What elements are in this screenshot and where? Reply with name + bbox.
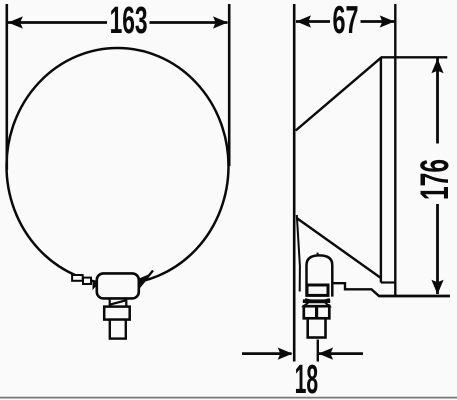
svg-text:163: 163 [110, 0, 148, 42]
dimension line 67 left segment [296, 20, 330, 23]
nut (side view) [304, 306, 330, 318]
clamp tab inner (left) [83, 278, 91, 284]
front face line (also 67/18 extension) [293, 4, 296, 362]
back band left edge [380, 57, 382, 282]
stem (front view) [110, 320, 126, 339]
extension line left (163) [6, 4, 9, 170]
collar left side (front view) [109, 299, 111, 307]
dimension line 18 left [242, 352, 292, 355]
connector window in dome [307, 285, 328, 295]
dimension line 163 right segment [150, 21, 228, 24]
back band right edge (also 67 extension line) [394, 4, 396, 296]
dome top nub [317, 253, 319, 256]
arrowhead 67 left [296, 15, 311, 27]
arrowhead 176 bottom [431, 280, 443, 295]
clamp tab outer (left) [72, 275, 83, 281]
clamp wedge right [139, 275, 149, 289]
arrowhead 18 left (pointing right) [278, 348, 293, 360]
back band bottom [381, 281, 395, 283]
dimension line 176 upper segment [436, 58, 439, 144]
dimension line 163 left segment [8, 21, 107, 24]
bottom cone diagonal [297, 218, 381, 278]
collar dark band (side view) [303, 299, 330, 303]
arrowhead 176 top [431, 59, 443, 74]
clamp strap line right [139, 271, 153, 288]
extension line right (163) [228, 4, 231, 166]
arrowhead 67 right [380, 15, 395, 27]
dimension line 176 lower segment [436, 204, 439, 294]
bracket rail (side view) [334, 283, 451, 296]
collar right side [125, 299, 127, 307]
bracket front edge jog (side view) [297, 215, 300, 292]
stem (side view) [308, 318, 326, 337]
18 extension line right (stem centerline) [317, 340, 319, 362]
arrowhead 163 left [8, 16, 23, 28]
nut (front view) [104, 307, 130, 320]
dome (side view) [307, 255, 333, 296]
nut facet line [315, 306, 318, 318]
arrowhead 163 right [213, 16, 228, 28]
svg-text:18: 18 [295, 356, 319, 400]
svg-text:67: 67 [333, 0, 359, 42]
nut top chamfer (side view) [304, 302, 330, 306]
dimension line 67 right segment [361, 20, 395, 23]
swivel body (front view) [97, 273, 139, 298]
bottom extension line (176) [379, 295, 450, 297]
top edge extension line (176 top) [381, 56, 447, 58]
arrowhead 18 right (pointing left) [318, 348, 333, 360]
scan artifact bottom edge [0, 397, 457, 399]
clamp wedge left [93, 280, 99, 291]
dimension line 18 right [319, 352, 363, 355]
collar X (side view) [305, 299, 330, 305]
svg-text:176: 176 [413, 159, 457, 200]
lamp rim circle (front view) [7, 48, 229, 284]
collar inner diagonal [110, 300, 127, 304]
top cone diagonal [296, 57, 382, 130]
